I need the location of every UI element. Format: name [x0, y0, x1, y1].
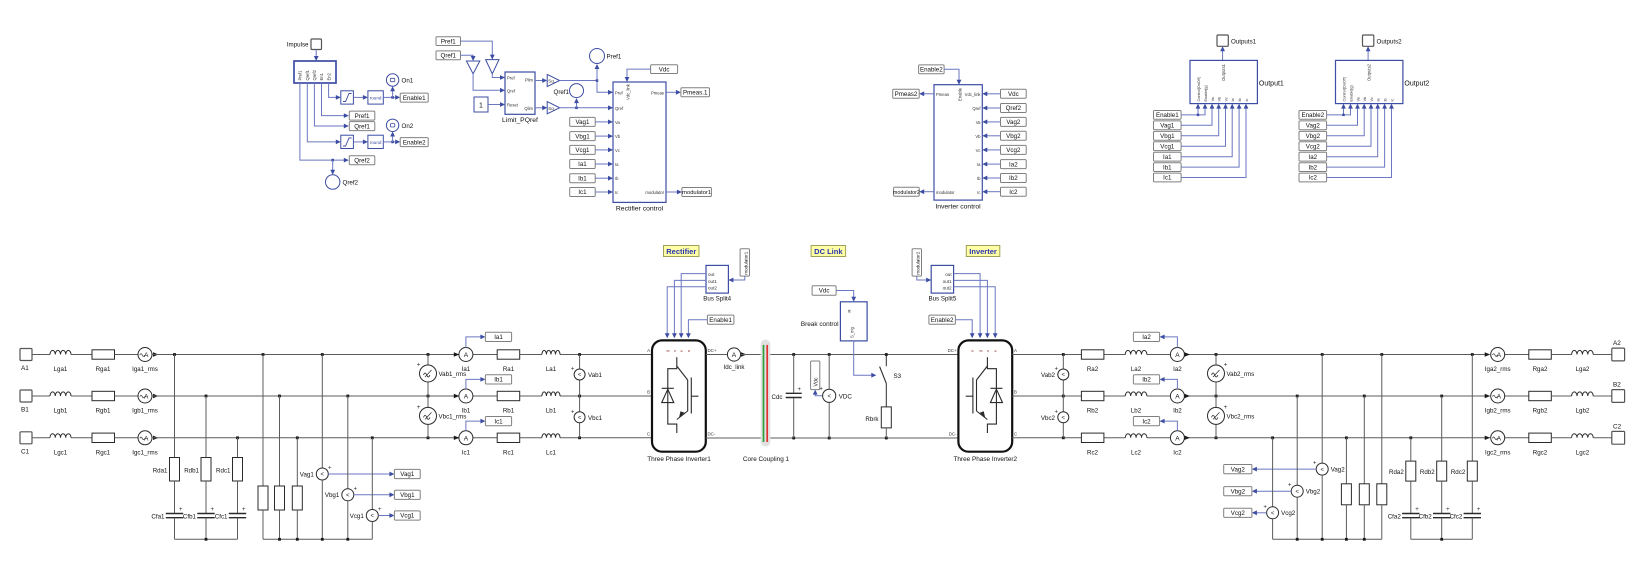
svg-text:Bus Split4: Bus Split4 [703, 296, 731, 303]
core coupling green line [763, 345, 765, 442]
wire Cfa1 to bus [174, 518, 176, 540]
svg-text:round: round [370, 140, 382, 145]
shunt resistor [275, 486, 285, 510]
resistor Rc2 [1081, 433, 1104, 456]
svg-text:n: n [971, 350, 975, 352]
wire Vab1 column [579, 355, 581, 438]
svg-text:A: A [144, 352, 149, 359]
svg-text:Qref1: Qref1 [441, 53, 457, 60]
svg-text:Rgc1: Rgc1 [96, 449, 111, 456]
wire inverter1 DC+ to Idc_link [706, 354, 727, 356]
svg-text:Vcg1: Vcg1 [350, 513, 365, 520]
wire Vcg2 to Output2 [1327, 104, 1374, 147]
junction [346, 395, 349, 398]
wire Rgb2 to Lgb2 [1551, 395, 1571, 397]
capacitor Cfa2 [1388, 507, 1420, 521]
svg-text:Ic2: Ic2 [1009, 189, 1018, 196]
svg-text:out1: out1 [708, 279, 717, 284]
svg-text:s: s [986, 350, 990, 352]
from tag Ib1 (rect ctl input) [570, 174, 596, 183]
wire Vbg2 to Inverter control [982, 133, 1000, 138]
svg-text:Ic2: Ic2 [1309, 175, 1318, 182]
wire Vag1 column top [321, 355, 323, 469]
svg-text:Sq.: Sq. [548, 79, 555, 84]
svg-text:Cdc: Cdc [771, 394, 782, 401]
svg-text:Vdc: Vdc [1008, 91, 1019, 98]
svg-text:<: < [578, 373, 582, 379]
junction bus1 [205, 538, 208, 541]
ground bus right 2 [1411, 538, 1473, 540]
svg-text:+: + [242, 507, 246, 513]
svg-text:On2: On2 [402, 123, 414, 130]
svg-text:Sq.: Sq. [548, 106, 555, 111]
junction [427, 353, 430, 356]
svg-text:Rga2: Rga2 [1533, 366, 1548, 373]
wire Vdc to Break control [836, 291, 856, 302]
ammeter Iga1_rms [132, 348, 158, 374]
junction DC+ bus [885, 353, 888, 356]
wire Rgc1 to Igc1_rms [115, 437, 139, 439]
goto tag Pmeas.1 [681, 88, 710, 97]
wire shunt resistor to bus [262, 510, 264, 539]
svg-text:Enable[g]: Enable[g] [1350, 85, 1354, 101]
goto tag Ia1 [485, 332, 511, 341]
svg-text:Vag2: Vag2 [1331, 466, 1346, 473]
resistor Ra1 [497, 350, 520, 373]
scope Qref2 [326, 175, 359, 189]
svg-text:Rdb2: Rdb2 [1420, 469, 1435, 476]
wire Vag2 to Output2 [1327, 104, 1360, 126]
wire Bus Split4 out1 to gate [672, 280, 706, 338]
resistor Rdc2 [1451, 461, 1477, 481]
svg-text:<: < [371, 514, 375, 520]
wire Ib2 to goto tag [1160, 377, 1178, 389]
svg-text:+: + [354, 486, 358, 492]
svg-text:Ic2: Ic2 [1173, 449, 1182, 456]
wire Vbg2 to Output2 [1327, 104, 1367, 136]
svg-text:Output1: Output1 [1259, 81, 1284, 88]
wire Rdb2 column [1441, 396, 1443, 461]
from tag Ib2 (inv ctl input) [1001, 174, 1027, 183]
svg-text:La2: La2 [1131, 366, 1142, 373]
capacitor Cdc [771, 355, 801, 439]
goto tag modulator1 [682, 188, 712, 197]
voltmeter Vcg2 [1263, 504, 1295, 519]
from tag Ia1 (rect ctl input) [570, 160, 596, 169]
svg-text:Rdc2: Rdc2 [1451, 469, 1466, 476]
goto tag Qref1 [349, 122, 375, 131]
goto tag Ic1 [485, 417, 511, 426]
wire Rgc2 to Lgc2 [1551, 437, 1571, 439]
junction DC+ bus [828, 353, 831, 356]
junction [1215, 395, 1218, 398]
from tag Ia2 (inv ctl input) [1001, 160, 1027, 169]
svg-text:Vb: Vb [615, 134, 621, 139]
junction round2-On2 [391, 141, 394, 144]
from tag Ic1 (rect ctl input) [570, 188, 596, 197]
goto tag Ib2 [1133, 375, 1159, 384]
wire Qref2 to Inverter control [982, 106, 1000, 111]
svg-text:Pmeas: Pmeas [651, 90, 664, 95]
svg-text:+: + [1415, 507, 1419, 513]
svg-text:Lgb1: Lgb1 [54, 408, 68, 415]
svg-text:Rb1: Rb1 [503, 408, 515, 415]
switch S3 [880, 355, 902, 407]
svg-text:modulator: modulator [936, 190, 955, 195]
from tag Ib2 (output2) [1299, 163, 1327, 172]
ammeter Igc2_rms [1485, 431, 1510, 457]
junction on Qref2 wire [331, 159, 334, 162]
ammeter Ib1 [459, 389, 473, 415]
svg-text:Ic1: Ic1 [578, 189, 587, 196]
capacitor Cfb1 [183, 507, 215, 521]
wire Vbg1 to Rectifier control [595, 134, 613, 139]
arrow after Iga1_rms [153, 352, 159, 356]
svg-text:+: + [571, 367, 575, 373]
input port A1 [20, 349, 32, 373]
svg-text:Vag1: Vag1 [400, 471, 415, 478]
shunt resistor [258, 486, 268, 510]
arrow into Igb2_rms [1485, 394, 1491, 398]
resistor Rga1 [92, 350, 115, 373]
inductor La1 [542, 350, 560, 373]
svg-text:+: + [328, 466, 332, 472]
output port Outputs2 [1363, 35, 1403, 46]
svg-text:Vag2: Vag2 [1231, 466, 1246, 473]
svg-text:Vc: Vc [976, 148, 981, 153]
junction [1215, 436, 1218, 439]
svg-text:Ic: Ic [1245, 98, 1249, 101]
wire pattern p2 to saturation S2 [307, 83, 341, 144]
wire Ib1 to Output1 [1181, 104, 1241, 168]
voltmeter Vcg1 [350, 507, 382, 522]
svg-text:Vbg2: Vbg2 [1306, 133, 1321, 140]
junction DC+ bus [792, 353, 795, 356]
svg-text:+: + [210, 507, 214, 513]
svg-text:DC+: DC+ [708, 348, 717, 353]
svg-text:Cfc1: Cfc1 [215, 514, 228, 521]
from tag Vag1 (rect ctl input) [570, 117, 596, 126]
svg-text:Ra1: Ra1 [503, 366, 515, 373]
svg-text:Plim: Plim [525, 78, 534, 83]
junction [1345, 436, 1348, 439]
svg-text:Reset: Reset [507, 103, 519, 108]
inductor Lgb1 [50, 392, 71, 415]
svg-text:Vcg2: Vcg2 [1006, 147, 1021, 154]
capacitor Cfc1 [215, 507, 246, 521]
svg-text:Vc: Vc [1224, 97, 1228, 102]
svg-text:+: + [571, 409, 575, 415]
ammeter Ic1 [459, 431, 473, 457]
svg-text:+: + [1313, 461, 1317, 467]
ammeter Igb2_rms [1485, 389, 1511, 415]
svg-text:A1: A1 [21, 365, 29, 372]
junction [1271, 436, 1274, 439]
svg-text:Control[OnOff]: Control[OnOff] [1343, 77, 1347, 101]
wire Sq2 to Rectifier control Qref [560, 105, 613, 110]
scope Pref1 [590, 49, 622, 64]
wire Ic2 to Output2 [1327, 104, 1394, 178]
inductor Lgc1 [50, 434, 71, 457]
svg-text:A: A [464, 435, 469, 442]
svg-text:On1: On1 [402, 78, 414, 85]
wire Vbg1 column top [347, 396, 349, 489]
wire Qlim to gain Sq2 [535, 105, 547, 110]
wire junction up to scope Qref1 [574, 98, 579, 108]
wire Ia2 to Output2 [1327, 104, 1381, 157]
ammeter Ic2 [1170, 431, 1184, 457]
bus split block Bus Split5 [928, 265, 956, 302]
resistor Rbrk [865, 407, 891, 438]
svg-text:Ib2: Ib2 [1173, 408, 1182, 415]
arrow into Iga2_rms [1485, 352, 1491, 356]
junction DC- bus [792, 437, 795, 440]
svg-text:Vag1: Vag1 [575, 119, 590, 126]
svg-text:Ic1: Ic1 [494, 418, 503, 425]
svg-text:Rbrk: Rbrk [865, 416, 879, 423]
wire modulator2 to Bus Split5 [917, 276, 931, 282]
svg-text:Vab1: Vab1 [588, 372, 603, 379]
junction [278, 395, 281, 398]
svg-text:<: < [1271, 511, 1275, 517]
wire pattern p3 to goto Qref1 [314, 83, 348, 128]
wire Vbg1 to goto tag [354, 492, 395, 497]
wire shunt resistor column [1381, 355, 1383, 484]
svg-text:C: C [1014, 431, 1017, 436]
svg-text:+: + [1263, 504, 1267, 510]
inductor Lc1 [542, 434, 560, 457]
wire shunt resistor to bus [279, 510, 281, 539]
svg-text:Va: Va [615, 120, 620, 125]
from tag Enable2 (inv ctl) [919, 65, 945, 74]
wire Ia2 to Inverter control [982, 162, 1000, 167]
subsystem Output2 [1336, 60, 1430, 103]
input port B1 [20, 390, 32, 414]
wire shunt resistor column [1345, 438, 1347, 484]
svg-text:out: out [708, 272, 715, 277]
wire Vag1 to goto tag [328, 472, 394, 477]
svg-text:Ib1: Ib1 [494, 377, 503, 384]
from tag Vdc (inv ctl input) [1001, 89, 1027, 98]
wire Ic1 to Output1 [1181, 104, 1248, 178]
junction bus3 [1296, 538, 1299, 541]
ground bus left 1 [175, 538, 238, 540]
wire Bus Split5 out to gate [954, 274, 983, 339]
svg-text:+: + [1446, 507, 1450, 513]
wire Ic2 to goto tag [1160, 419, 1178, 431]
junction bus3 [1363, 538, 1366, 541]
svg-text:Vab2_rms: Vab2_rms [1227, 371, 1255, 378]
goto tag Vdc (vertical) [811, 361, 820, 390]
svg-text:Enable[g]: Enable[g] [1204, 85, 1208, 101]
arrow after Ib2 [1185, 394, 1191, 398]
svg-text:Pref: Pref [507, 76, 516, 81]
from tag Vcg1 (output1) [1154, 142, 1182, 151]
svg-text:Vcg1: Vcg1 [575, 147, 590, 154]
svg-text:out: out [945, 272, 952, 277]
svg-text:Vag2: Vag2 [1006, 119, 1021, 126]
wire round1 to goto Enable1 [383, 95, 400, 100]
svg-text:Qref1: Qref1 [554, 89, 570, 96]
wire Qref1 to gain G1 [461, 55, 476, 61]
svg-text:Lb2: Lb2 [1131, 408, 1142, 415]
svg-text:C2: C2 [1613, 423, 1622, 430]
gain G2 (down) [486, 60, 499, 74]
junction [1296, 395, 1299, 398]
svg-text:Cfa1: Cfa1 [151, 514, 165, 521]
svg-text:Cfa2: Cfa2 [1388, 514, 1402, 521]
junction [296, 436, 299, 439]
junction DC- bus [828, 437, 831, 440]
from tag Ib1 (output1) [1154, 163, 1182, 172]
svg-text:En2: En2 [326, 72, 331, 80]
svg-text:Qref1: Qref1 [354, 123, 370, 130]
svg-text:A: A [1497, 352, 1502, 359]
capacitor Cfc2 [1450, 507, 1481, 521]
wire Plim to gain Sq1 [535, 78, 547, 83]
svg-text:Pref1: Pref1 [441, 38, 456, 45]
svg-text:Lgc1: Lgc1 [54, 449, 68, 456]
svg-text:DC-: DC- [708, 431, 716, 436]
capacitor Cfa1 [151, 507, 183, 521]
from tag Qref1 (rect ctl) [436, 51, 461, 60]
goto tag Enable2 [400, 138, 428, 147]
svg-text:Pref1: Pref1 [298, 70, 303, 81]
wire Rdb1 to Cfb1 [205, 481, 207, 514]
svg-text:Ra2: Ra2 [1087, 366, 1099, 373]
wire Bus Split5 out2 to gate [954, 287, 998, 338]
svg-text:DC-: DC- [949, 431, 957, 436]
svg-text:Pref: Pref [615, 90, 624, 95]
svg-text:Vbg1: Vbg1 [325, 492, 340, 499]
svg-text:Vag2: Vag2 [1306, 123, 1321, 130]
svg-text:VDC: VDC [839, 393, 853, 400]
goto tag modulator2 [893, 187, 920, 196]
arrow into Igc2_rms [1485, 436, 1491, 440]
wire round2 to goto Enable2 [383, 140, 400, 145]
gain Sq1 [547, 74, 559, 86]
svg-text:Vcg1: Vcg1 [400, 513, 415, 520]
inductor Lc2 [1125, 434, 1147, 457]
gate port labels inverter1 [666, 350, 691, 352]
svg-text:Limit_PQref: Limit_PQref [502, 117, 538, 124]
goto tag Vag1 [394, 469, 420, 478]
from tag Vcg2 (inv ctl input) [1001, 145, 1027, 154]
capacitor Cfb2 [1419, 507, 1451, 521]
gain G1 (down) [466, 61, 479, 74]
svg-text:Vb: Vb [975, 134, 981, 139]
svg-text:Vab2: Vab2 [1041, 372, 1056, 379]
svg-text:modulator1: modulator1 [743, 251, 748, 274]
svg-text:Outputs2: Outputs2 [1367, 63, 1372, 81]
ground bus right 1 [1273, 538, 1382, 540]
svg-text:Bus Split5: Bus Split5 [928, 296, 956, 303]
junction [262, 353, 265, 356]
wire Enable2 to Output2 ports [1327, 104, 1353, 117]
label DC Link (yellow) [811, 246, 846, 257]
wire shunt resistor column [279, 396, 281, 486]
signal pattern block U_imp [294, 61, 336, 83]
wire Enable2 to Inverter control top [944, 69, 961, 84]
from tag modulator2 (vertical) [912, 249, 921, 276]
wire Vcg1 to Rectifier control [595, 148, 613, 153]
junction Sq1 wire [596, 79, 599, 82]
svg-text:Qref2: Qref2 [1006, 105, 1022, 112]
svg-text:Break control: Break control [801, 321, 839, 328]
from tag Enable2 (gate) [929, 315, 956, 324]
svg-text:modulator1: modulator1 [682, 190, 711, 196]
input port C1 [20, 432, 32, 456]
wire Output1 to Outputs1 [1220, 46, 1225, 60]
svg-text:Outputs2: Outputs2 [1377, 39, 1403, 46]
arrow into Ib1 [454, 394, 460, 398]
wire Pmeas to goto Pmeas.1 [666, 90, 681, 95]
from tag Ic1 (output1) [1154, 173, 1182, 182]
wire Rga2 to Lga2 [1551, 354, 1571, 356]
svg-text:Vcg2: Vcg2 [1231, 510, 1246, 517]
svg-text:A: A [144, 435, 149, 442]
goto tag Vcg2 [1224, 508, 1252, 517]
wire Vbg2 to goto tag [1252, 489, 1291, 494]
wire G2 to Limit Pref input [492, 74, 505, 80]
svg-text:<: < [578, 416, 582, 422]
wire shunt resistor column [1363, 396, 1365, 484]
svg-text:Ic2: Ic2 [1142, 418, 1151, 425]
svg-text:A: A [1497, 435, 1502, 442]
wire Rdc1 to Cfc1 [237, 481, 239, 514]
svg-text:Rgc2: Rgc2 [1533, 449, 1548, 456]
svg-text:Lb1: Lb1 [546, 408, 557, 415]
wire DC- bus [706, 437, 959, 439]
svg-text:Qref: Qref [507, 88, 516, 93]
junction [1440, 395, 1443, 398]
input source Impulse [287, 39, 322, 50]
wire Bus Split4 out to gate [679, 274, 706, 339]
wire G1 to Limit Qref input [473, 74, 505, 93]
svg-text:Vcg2: Vcg2 [1306, 143, 1321, 150]
svg-text:B2: B2 [1613, 382, 1621, 389]
shunt resistor [1359, 484, 1369, 505]
svg-text:Ic1: Ic1 [462, 449, 471, 456]
svg-text:S_trig: S_trig [850, 326, 855, 338]
wire Ib2 to Inverter control [982, 176, 1000, 181]
wire Vag1 to Output1 [1181, 104, 1214, 126]
svg-text:Three Phase Inverter1: Three Phase Inverter1 [647, 456, 711, 463]
svg-text:C: C [647, 431, 650, 436]
svg-text:Impulse: Impulse [287, 42, 309, 49]
wire Rdc1 column [237, 438, 239, 458]
junction bus3 [1321, 538, 1324, 541]
ammeter Igc1_rms [132, 431, 157, 457]
subsystem Limit_PQref [502, 72, 538, 124]
svg-text:Rda2: Rda2 [1389, 469, 1404, 476]
wire row B1 bus [152, 395, 652, 397]
resistor Rdb1 [184, 458, 211, 482]
scope On2 [386, 119, 413, 131]
svg-text:Igc1_rms: Igc1_rms [132, 449, 157, 456]
voltmeter Vbc1 [571, 409, 603, 423]
wire DC+ bus [741, 354, 958, 356]
junction [427, 395, 430, 398]
wire Lga2 to port A2 [1593, 354, 1612, 356]
three-phase inverter block Three Phase Inverter2 [954, 340, 1018, 463]
svg-text:A: A [1175, 352, 1180, 359]
wire Rda1 to Cfa1 [174, 481, 176, 514]
svg-text:Vbg1: Vbg1 [1160, 133, 1175, 140]
wire Vag2 to Inverter control [982, 120, 1000, 125]
output port B2 [1612, 382, 1625, 403]
wire pattern p1 to goto Qref2 [300, 83, 349, 163]
